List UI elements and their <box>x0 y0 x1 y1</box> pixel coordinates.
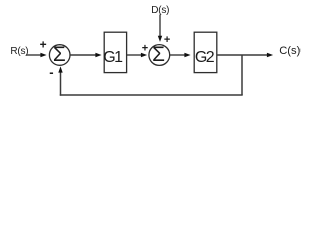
block G2 <box>194 32 217 72</box>
wire feedback up into S1 <box>58 66 62 95</box>
wire D(s) into S2 <box>158 15 162 42</box>
svg-text:+: + <box>40 37 47 51</box>
wire S1 to G1 <box>70 53 101 57</box>
block G1 <box>103 32 126 72</box>
svg-text:Σ: Σ <box>152 43 165 66</box>
summing junction S2 <box>149 43 170 66</box>
svg-text:G2: G2 <box>195 49 215 66</box>
wire G2 to output C(s) <box>217 53 273 57</box>
wire G1 to summer S2 <box>127 53 147 57</box>
wire feedback bottom run <box>60 94 243 96</box>
artifact tick after C(s) <box>299 49 300 52</box>
wire feedback takeoff vertical <box>241 55 243 95</box>
summing junction S1 <box>49 43 70 66</box>
svg-text:+: + <box>164 34 170 46</box>
svg-text:-: - <box>49 64 53 79</box>
svg-text:G1: G1 <box>103 49 123 66</box>
svg-text:Σ: Σ <box>53 43 66 66</box>
wire S2 to G2 <box>170 53 191 57</box>
wire R(s) to summer S1 <box>26 53 47 57</box>
svg-text:D(s): D(s) <box>151 5 169 16</box>
svg-text:C(s): C(s) <box>279 45 300 57</box>
svg-text:+: + <box>142 43 148 55</box>
svg-text:R(s): R(s) <box>10 46 28 57</box>
